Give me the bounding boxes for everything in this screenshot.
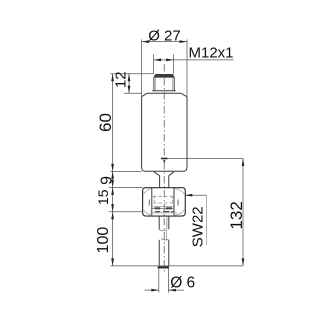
svg-text:SW22: SW22 xyxy=(189,206,206,247)
svg-text:Ø 6: Ø 6 xyxy=(170,274,195,291)
svg-text:132: 132 xyxy=(227,201,246,229)
svg-text:Ø 27: Ø 27 xyxy=(148,27,181,44)
svg-text:15: 15 xyxy=(95,189,111,205)
svg-text:100: 100 xyxy=(95,227,112,254)
svg-text:9: 9 xyxy=(98,176,115,185)
svg-text:M12x1: M12x1 xyxy=(189,45,234,62)
svg-text:12: 12 xyxy=(113,71,130,88)
svg-text:60: 60 xyxy=(96,113,115,132)
